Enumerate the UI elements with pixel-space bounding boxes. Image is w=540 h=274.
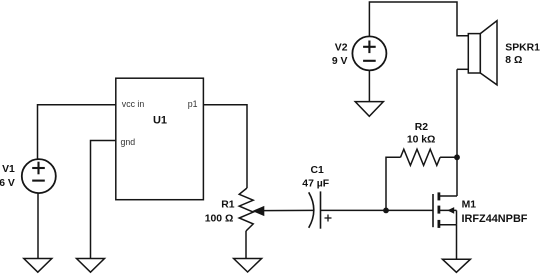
svg-text:p1: p1 — [188, 99, 198, 109]
node junction drain/R2/speaker — [454, 154, 460, 160]
label R1 100 Ohm — [205, 200, 235, 225]
wire p1 to R1 top — [203, 105, 247, 188]
wire R1 bottom to ground — [245, 231, 247, 259]
svg-text:C1: C1 — [311, 165, 325, 176]
ground under V2 — [355, 102, 383, 117]
svg-text:R1: R1 — [221, 200, 235, 211]
op-amp U1 (IC block) — [116, 78, 204, 200]
svg-text:47 µF: 47 µF — [302, 179, 329, 190]
ground under V1 — [24, 259, 52, 273]
svg-text:M1: M1 — [462, 200, 477, 211]
svg-text:V2: V2 — [335, 43, 348, 54]
wire vcc-in to V1 top — [38, 105, 116, 159]
label SPKR1 8 Ohm — [505, 43, 540, 67]
wire V2 bottom to ground — [368, 71, 370, 102]
ground under R1 — [234, 259, 262, 273]
label V1 6 V — [0, 164, 15, 189]
label R2 10 kOhm — [407, 122, 436, 145]
label M1 IRFZ44NPBF — [462, 200, 528, 226]
svg-text:gnd: gnd — [121, 137, 136, 147]
wire speaker bottom down to drain — [456, 69, 458, 196]
svg-text:100 Ω: 100 Ω — [205, 214, 234, 225]
svg-text:U1: U1 — [153, 114, 167, 126]
node junction at gate/C1/R2 — [383, 208, 389, 214]
label C1 47 uF — [302, 165, 329, 190]
voltage source V2 — [352, 36, 386, 70]
wire C1 to gate junction to M1 gate — [321, 209, 433, 211]
wire M1 source to ground — [456, 225, 458, 259]
resistor R2 — [401, 149, 441, 165]
potentiometer R1 — [239, 188, 313, 231]
svg-text:SPKR1: SPKR1 — [505, 43, 540, 54]
pin gnd — [121, 137, 136, 147]
wire V1 bottom to ground — [37, 193, 39, 258]
speaker SPKR1 — [457, 21, 497, 85]
voltage source V1 — [22, 159, 56, 193]
svg-text:9 V: 9 V — [332, 56, 348, 67]
svg-text:6 V: 6 V — [0, 178, 15, 189]
pin vcc in — [122, 99, 145, 109]
svg-text:10 kΩ: 10 kΩ — [407, 135, 436, 146]
svg-text:R2: R2 — [415, 122, 429, 133]
capacitor C1 (polarized) — [309, 191, 332, 228]
svg-text:8 Ω: 8 Ω — [505, 55, 522, 66]
pin p1 — [188, 99, 198, 109]
wire gnd pin to ground — [91, 141, 116, 259]
label U1 — [153, 114, 167, 126]
svg-text:vcc in: vcc in — [122, 99, 145, 109]
transistor M1 (NMOS) — [433, 192, 457, 228]
wire junction up to R2 left — [386, 157, 401, 210]
svg-text:IRFZ44NPBF: IRFZ44NPBF — [462, 213, 528, 225]
label V2 9 V — [332, 43, 348, 68]
wire V2 top loop to speaker top — [369, 2, 468, 36]
ground from U1 gnd — [77, 259, 105, 273]
wire R2 right to drain rail — [440, 156, 457, 158]
svg-text:V1: V1 — [2, 164, 15, 175]
ground under M1 — [442, 259, 470, 272]
